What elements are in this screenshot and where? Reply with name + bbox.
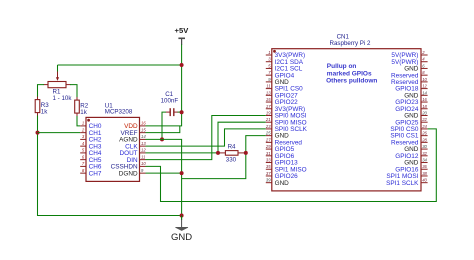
CN1 annotation pullup note — [326, 63, 377, 84]
svg-text:5: 5 — [268, 63, 271, 68]
svg-text:4: 4 — [82, 141, 85, 146]
connector CN1 Raspberry Pi 2 — [272, 34, 421, 191]
CN1 pin 24 SPI0 CS0 — [390, 124, 427, 133]
wire DIN to SPI0 MOSI — [146, 116, 266, 160]
CN1 pin 22 GPIO25 — [395, 117, 427, 126]
svg-text:5: 5 — [82, 148, 85, 153]
svg-text:4: 4 — [422, 57, 425, 62]
U1 pin 9 DGND — [119, 168, 146, 177]
wire R3 bottom to GND rail bottom — [38, 116, 182, 216]
svg-text:39: 39 — [266, 178, 271, 183]
svg-text:CH7: CH7 — [89, 170, 102, 177]
U1 pin 15 VREF — [121, 127, 147, 136]
wire CLK to SPI0 SCLK — [146, 129, 266, 146]
resistor R2 1k — [75, 97, 89, 116]
CN1 pin 17 3V3(PWR) — [266, 104, 305, 113]
wire to U1 CH1 — [38, 132, 81, 134]
CN1 pin 31 GPIO6 — [266, 151, 295, 160]
resistor R4 330 — [218, 143, 246, 163]
svg-text:12: 12 — [141, 148, 146, 153]
svg-text:100nF: 100nF — [161, 97, 179, 104]
svg-text:10: 10 — [422, 77, 427, 82]
wire CSSHDN to SPI0 CS0 — [146, 129, 437, 202]
U1 pin 11 DIN — [127, 154, 146, 163]
power +5V — [175, 26, 190, 45]
wire C1 left to AGND — [162, 112, 166, 139]
op-amp U1 MCP3208 ADC — [86, 102, 140, 181]
CN1 pin 39 GND — [266, 178, 289, 187]
U1 pin 14 AGND — [119, 134, 146, 143]
wire AGND to GND rail — [146, 139, 182, 215]
junction — [180, 110, 184, 114]
wire R2 bottom to U1 CH0 — [77, 116, 80, 126]
junction — [36, 131, 40, 135]
svg-text:1k: 1k — [41, 109, 48, 116]
svg-text:27: 27 — [265, 137, 271, 142]
capacitor C1 100nF — [161, 91, 179, 116]
ground — [171, 216, 192, 243]
CN1 pin 15 GPIO22 — [266, 97, 298, 106]
svg-text:11: 11 — [141, 154, 145, 159]
CN1 pin 25 GND — [265, 131, 289, 140]
svg-text:2: 2 — [81, 127, 85, 132]
svg-text:25: 25 — [265, 131, 271, 136]
CN1 pin 5 I2C1 SCL — [266, 63, 303, 72]
CN1 pin 35 SPI1 MISO — [266, 164, 307, 173]
CN1 pin 19 SPI0 MOSI — [266, 110, 307, 119]
U1 pin 7 CH6 — [80, 161, 102, 170]
svg-text:+5V: +5V — [175, 26, 190, 35]
svg-text:17: 17 — [266, 104, 271, 109]
svg-text:13: 13 — [141, 141, 146, 146]
wire SPI0 MISO down to DOUT node — [218, 122, 266, 153]
svg-text:15: 15 — [141, 127, 146, 132]
svg-text:40: 40 — [422, 178, 427, 183]
CN1 pin 29 GPIO5 — [265, 144, 295, 153]
svg-text:Pullup on: Pullup on — [327, 63, 357, 70]
wire R1 left to R3 top — [38, 85, 45, 97]
CN1 pin 36 GPIO16 — [395, 164, 427, 173]
CN1 pin 23 SPI0 SCLK — [265, 124, 308, 133]
CN1 pin 40 SPI1 SCLK — [386, 178, 428, 187]
svg-text:24: 24 — [421, 124, 427, 129]
CN1 pin 37 GPIO26 — [266, 171, 298, 180]
CN1 pin 2 5V(PWR) — [391, 50, 427, 59]
svg-text:10: 10 — [141, 161, 146, 166]
U1 pin 13 CLK — [125, 141, 146, 150]
CN1 pin 10 Reserved — [391, 77, 428, 86]
svg-text:16: 16 — [422, 97, 427, 102]
svg-text:Raspberry Pi 2: Raspberry Pi 2 — [330, 40, 371, 47]
svg-text:37: 37 — [266, 171, 271, 176]
svg-text:1k: 1k — [80, 109, 87, 116]
CN1 pin 21 SPI0 MISO — [265, 117, 307, 126]
CN1 pin 18 GPIO24 — [395, 104, 427, 113]
U1 pin 2 CH1 — [80, 127, 102, 136]
svg-text:23: 23 — [265, 124, 271, 129]
svg-text:9: 9 — [268, 77, 271, 82]
svg-text:21: 21 — [265, 117, 271, 122]
CN1 pin 13 GPIO27 — [266, 90, 298, 99]
svg-text:12: 12 — [422, 84, 427, 89]
wire DGND to GND rail — [146, 172, 182, 174]
CN1 pin 38 SPI1 MOSI — [386, 171, 427, 180]
junction — [216, 151, 220, 155]
svg-text:DGND: DGND — [119, 170, 138, 177]
svg-text:2: 2 — [421, 50, 425, 55]
svg-text:MCP3208: MCP3208 — [105, 108, 133, 115]
CN1 pin 1 3V3(PWR) — [266, 50, 305, 59]
CN1 pin 20 GND — [404, 110, 427, 119]
svg-text:GND: GND — [275, 180, 290, 187]
CN1 pin 3 I2C1 SDA — [266, 57, 304, 66]
CN1 pin 7 GPIO4 — [266, 70, 295, 79]
U1 pin 16 VDD — [124, 121, 146, 130]
U1 pin 10 CSSHDN — [111, 161, 147, 170]
CN1 pin 14 GND — [404, 90, 427, 99]
svg-text:1 - 10k: 1 - 10k — [53, 95, 73, 102]
svg-text:14: 14 — [141, 134, 146, 139]
CN1 pin 26 SPI0 CS1 — [390, 131, 427, 140]
junction — [160, 137, 164, 141]
junction — [180, 63, 184, 67]
junction — [180, 171, 184, 175]
svg-text:29: 29 — [265, 144, 271, 149]
svg-text:15: 15 — [266, 97, 271, 102]
svg-text:33: 33 — [266, 158, 271, 163]
svg-text:6: 6 — [82, 154, 85, 159]
CN1 pin 4 5V(PWR) — [391, 57, 427, 66]
svg-text:31: 31 — [266, 151, 271, 156]
CN1 pin 6 GND — [404, 63, 427, 72]
svg-text:Others pulldown: Others pulldown — [326, 77, 377, 84]
svg-text:26: 26 — [421, 131, 427, 136]
svg-text:8: 8 — [82, 168, 85, 173]
U1 pin 8 CH7 — [80, 168, 102, 177]
svg-text:1: 1 — [268, 50, 270, 55]
svg-text:34: 34 — [422, 158, 427, 163]
svg-text:32: 32 — [422, 151, 427, 156]
svg-text:13: 13 — [266, 90, 271, 95]
U1 pin 3 CH2 — [80, 134, 102, 143]
svg-text:38: 38 — [422, 171, 427, 176]
svg-text:9: 9 — [141, 168, 144, 173]
CN1 pin 27 Reserved — [265, 137, 302, 146]
U1 pin 6 CH5 — [80, 154, 102, 163]
junction — [180, 214, 184, 218]
junction — [244, 151, 248, 155]
svg-text:7: 7 — [82, 161, 85, 166]
resistor R3 1k — [35, 97, 49, 116]
svg-text:11: 11 — [266, 84, 270, 89]
CN1 pin 30 GND — [404, 144, 427, 153]
svg-text:22: 22 — [421, 117, 427, 122]
U1 pin 5 CH4 — [80, 148, 102, 157]
CN1 pin 33 GPIO13 — [266, 158, 298, 167]
svg-text:18: 18 — [422, 104, 427, 109]
svg-text:30: 30 — [422, 144, 427, 149]
svg-text:R4: R4 — [228, 143, 236, 150]
U1 pin 4 CH3 — [80, 141, 102, 150]
wire R1 wiper drop — [57, 65, 59, 72]
wire VREF to VDD line — [146, 126, 180, 133]
svg-text:28: 28 — [421, 137, 427, 142]
CN1 pin 8 Reserved — [391, 70, 428, 79]
wire CN1 GND return to rail — [182, 136, 266, 179]
wire +5V rail to U1 VDD pin16 — [146, 45, 182, 126]
CN1 pin 9 GND — [266, 77, 289, 86]
svg-text:8: 8 — [422, 70, 425, 75]
svg-text:14: 14 — [422, 90, 427, 95]
svg-text:19: 19 — [266, 110, 271, 115]
U1 pin 1 CH0 — [80, 121, 102, 130]
svg-text:marked GPIOs: marked GPIOs — [327, 70, 372, 77]
wire C1 right to +5V rail — [178, 111, 182, 113]
CN1 pin 11 SPI1 CS0 — [266, 84, 303, 93]
svg-text:1: 1 — [82, 121, 84, 126]
U1 pin 12 DOUT — [119, 148, 146, 157]
CN1 pin 28 Reserved — [391, 137, 428, 146]
svg-text:3: 3 — [268, 57, 271, 62]
svg-text:SPI1 SCLK: SPI1 SCLK — [386, 180, 419, 187]
svg-text:GND: GND — [171, 232, 192, 243]
wire DOUT to R4 — [146, 152, 219, 154]
CN1 pin 16 GPIO23 — [395, 97, 427, 106]
wire top rail to R1 wiper — [58, 64, 182, 66]
resistor R1 potentiometer 1-10k — [44, 72, 73, 103]
CN1 pin 32 GPIO12 — [395, 151, 427, 160]
svg-text:7: 7 — [268, 70, 271, 75]
svg-text:35: 35 — [266, 164, 271, 169]
svg-text:330: 330 — [226, 157, 237, 164]
CN1 pin 34 GND — [404, 158, 427, 167]
svg-text:16: 16 — [141, 121, 146, 126]
svg-text:36: 36 — [422, 164, 427, 169]
svg-text:3: 3 — [82, 134, 85, 139]
svg-text:20: 20 — [421, 110, 427, 115]
wire R1 right to R2 top — [70, 85, 77, 98]
CN1 pin 12 GPIO18 — [395, 84, 427, 93]
svg-text:6: 6 — [422, 63, 425, 68]
